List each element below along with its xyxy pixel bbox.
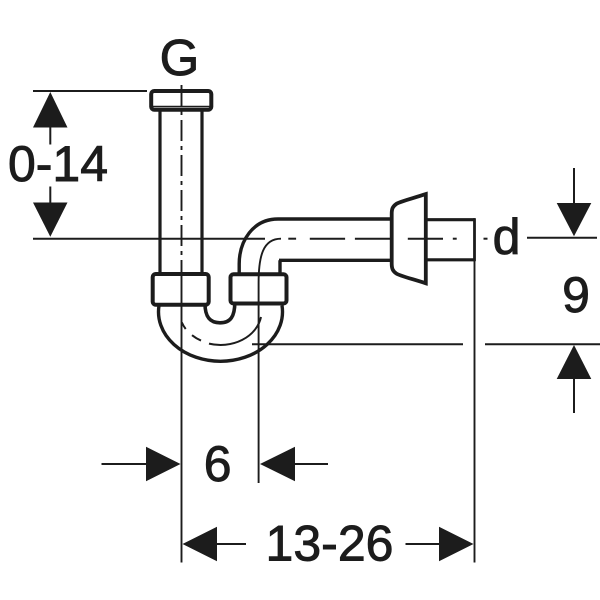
svg-text:G: G [160, 29, 200, 86]
svg-text:13-26: 13-26 [266, 516, 394, 572]
svg-text:6: 6 [204, 436, 232, 492]
svg-text:9: 9 [562, 267, 590, 323]
svg-text:d: d [493, 209, 521, 265]
svg-text:0-14: 0-14 [8, 136, 108, 192]
